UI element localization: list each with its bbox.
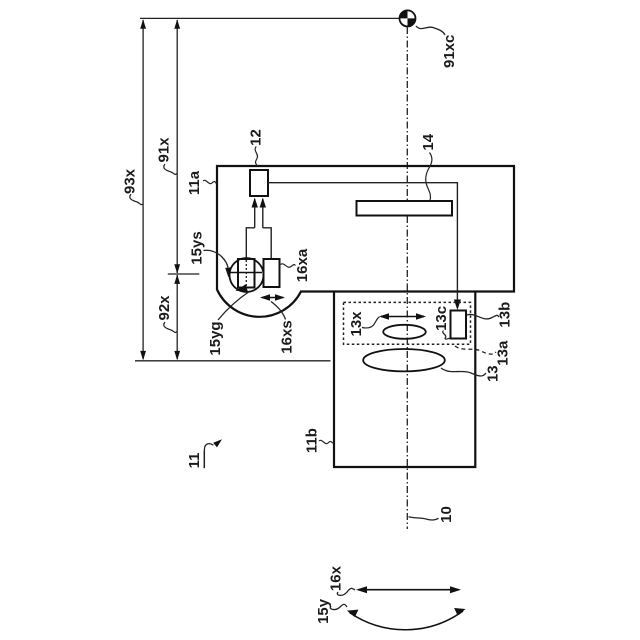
arrowheads into 12 xyxy=(252,198,258,208)
arrow 16xs horizontal double arrow xyxy=(262,297,283,299)
dotted center line in 15ys xyxy=(245,260,247,287)
arrow into 13c xyxy=(454,300,461,311)
leader 15yg with SW arrow xyxy=(218,291,250,320)
svg-text:13a: 13a xyxy=(495,340,512,366)
box 16xa (actuator) xyxy=(264,259,280,287)
svg-text:91x: 91x xyxy=(156,137,173,163)
svg-text:16xa: 16xa xyxy=(294,248,311,282)
svg-text:13x: 13x xyxy=(348,311,365,337)
lens element big ellipse 13 xyxy=(363,349,445,371)
svg-text:92x: 92x xyxy=(156,295,173,321)
lens element small ellipse xyxy=(383,325,426,339)
svg-text:14: 14 xyxy=(420,133,437,150)
svg-text:91xc: 91xc xyxy=(441,35,458,68)
svg-text:13c: 13c xyxy=(433,306,450,331)
arrow 16x double arrow xyxy=(358,589,459,591)
node label 91xc xyxy=(416,26,445,35)
svg-text:11b: 11b xyxy=(304,428,321,453)
svg-text:12: 12 xyxy=(248,129,265,146)
svg-text:16x: 16x xyxy=(328,565,345,591)
dimension 91x line xyxy=(176,20,178,273)
horizontal diameter line xyxy=(228,272,262,274)
wire bottom extension line xyxy=(135,360,331,362)
dimension 92x line xyxy=(176,275,178,359)
wire 12 to 13c xyxy=(268,183,457,308)
dimension 93x line xyxy=(142,20,144,359)
box 14 (display) xyxy=(357,201,453,216)
leader 15ys with down arrow xyxy=(204,250,229,267)
node 91xc crosshair xyxy=(400,10,416,26)
svg-text:11: 11 xyxy=(186,453,203,469)
svg-text:15yg: 15yg xyxy=(207,321,224,355)
body 11a outline xyxy=(217,166,514,317)
wire 12 to shake units (two lines with up arrows) xyxy=(246,199,271,259)
arrow 15y curved double arrow xyxy=(350,611,464,630)
dashed box around 13x group xyxy=(344,302,471,344)
svg-text:93x: 93x xyxy=(122,168,139,194)
circle 15yg (gimbal) xyxy=(230,258,264,292)
svg-text:10: 10 xyxy=(438,506,455,523)
box 15ys (shake sensor) xyxy=(238,259,255,288)
arrow 13x double arrow xyxy=(381,316,424,318)
svg-text:15y: 15y xyxy=(315,598,332,624)
body 11b outline xyxy=(334,292,475,468)
svg-text:13: 13 xyxy=(485,365,502,382)
svg-text:16xs: 16xs xyxy=(279,320,296,353)
svg-text:15ys: 15ys xyxy=(188,231,205,264)
box 13c xyxy=(451,311,467,339)
wire mid extension tick at gimbal center xyxy=(168,273,200,275)
box 12 (controller) xyxy=(250,170,268,196)
svg-text:13b: 13b xyxy=(497,302,514,328)
wire optical axis 10 (dash-dot) xyxy=(406,27,408,529)
wire top extension line xyxy=(140,17,408,19)
svg-text:11a: 11a xyxy=(186,170,203,195)
